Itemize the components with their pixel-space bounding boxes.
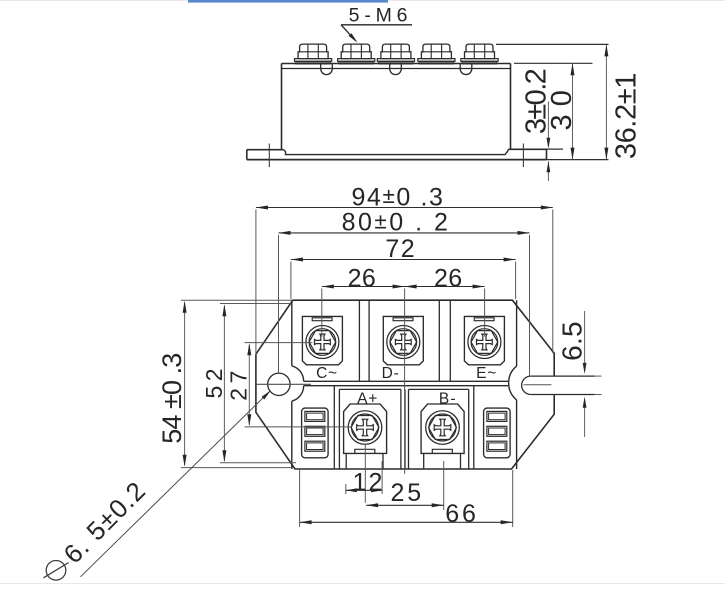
svg-text:72: 72: [385, 235, 416, 263]
svg-text:26: 26: [434, 265, 463, 293]
svg-text:5-M6: 5-M6: [349, 4, 413, 26]
svg-text:B-: B-: [439, 390, 457, 407]
svg-text:12: 12: [353, 469, 385, 497]
svg-text:3 0: 3 0: [546, 90, 578, 130]
svg-text:54 ±0 .3: 54 ±0 .3: [157, 354, 187, 444]
svg-text:27: 27: [226, 366, 252, 401]
svg-text:80±0 . 2: 80±0 . 2: [342, 208, 451, 236]
svg-text:26: 26: [348, 265, 377, 293]
svg-text:52: 52: [201, 364, 227, 399]
svg-text:66: 66: [445, 500, 478, 528]
svg-text:A+: A+: [357, 390, 378, 407]
svg-text:C~: C~: [316, 365, 338, 382]
svg-text:6.5: 6.5: [556, 321, 587, 361]
svg-text:E~: E~: [476, 365, 497, 382]
svg-text:94±0 .3: 94±0 .3: [351, 183, 444, 211]
svg-text:25: 25: [390, 479, 424, 507]
svg-text:D-: D-: [382, 365, 400, 382]
svg-text:36.2±1: 36.2±1: [611, 73, 643, 159]
